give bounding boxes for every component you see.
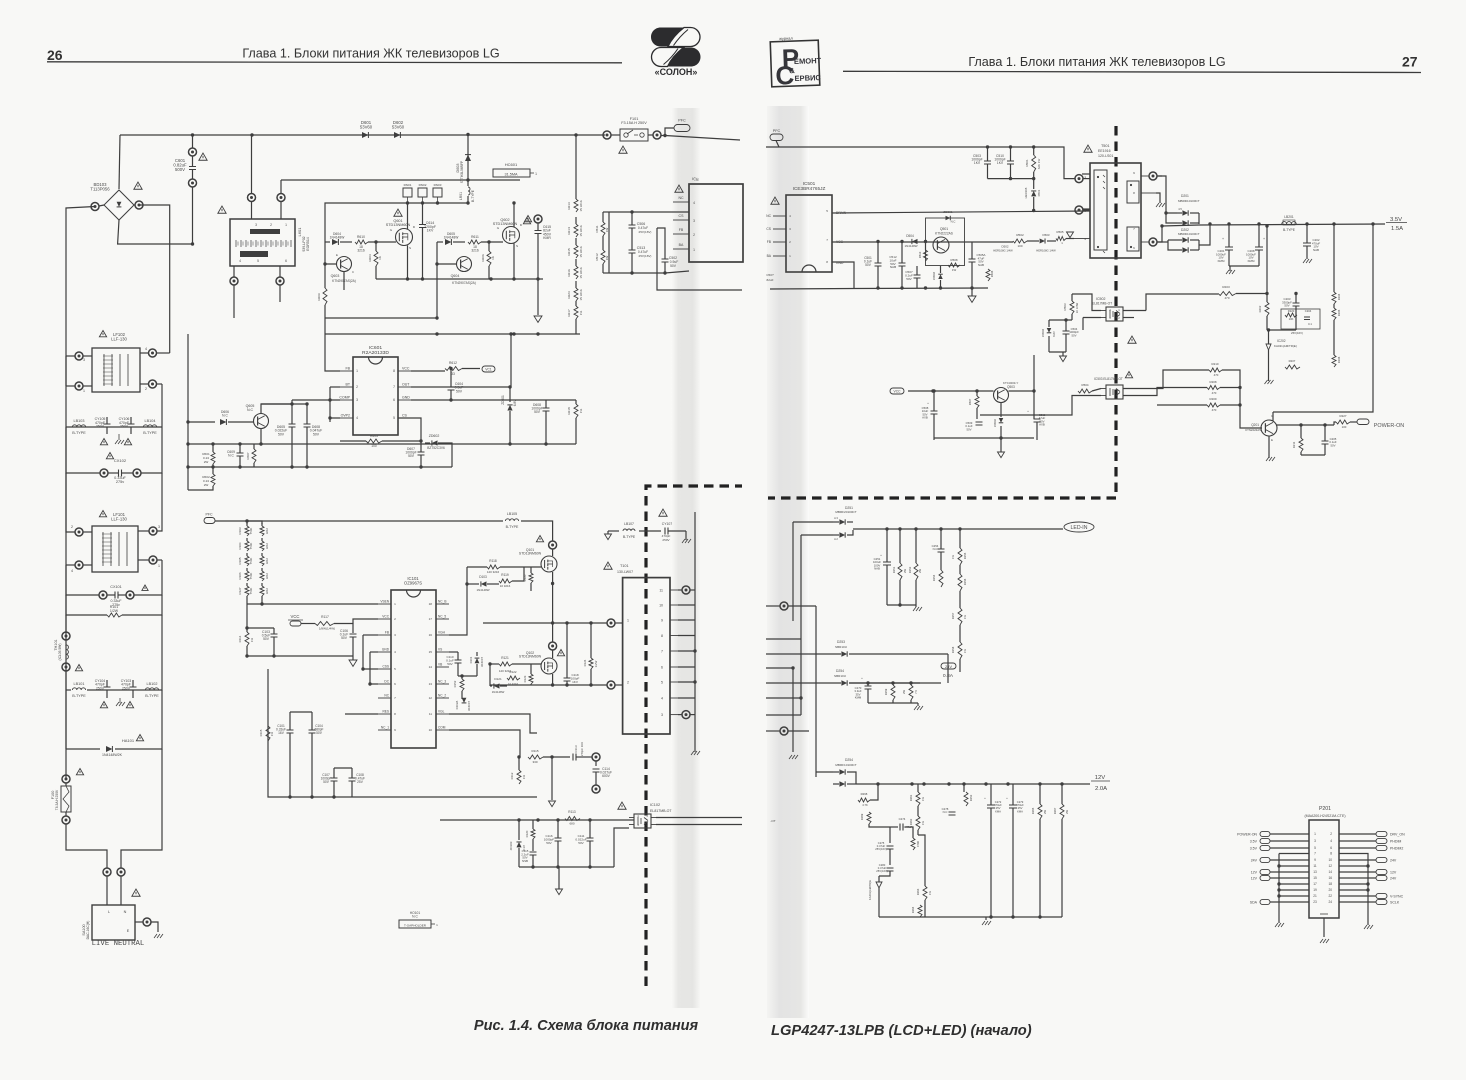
capacitor C101 [287, 730, 294, 733]
svg-text:ZD503: ZD503 [932, 271, 936, 280]
svg-text:470: 470 [1212, 408, 1217, 412]
resistor R227 [1336, 420, 1350, 424]
inductor L201 [1282, 222, 1296, 224]
svg-text:50V: 50V [865, 263, 872, 267]
warning triangle Q602 [524, 216, 531, 222]
node enclosure [288, 795, 291, 798]
capacitor C108 [349, 778, 356, 781]
resistor R508 [948, 263, 960, 267]
IC101 pin 4 GND [378, 651, 391, 653]
svg-text:3.5V: 3.5V [1390, 217, 1402, 223]
svg-text:R251: R251 [892, 566, 896, 573]
publisher logo Remont&Service [770, 35, 823, 91]
wire 24v bus [947, 654, 949, 683]
svg-text:R115: R115 [259, 729, 263, 736]
resistor R262 [916, 816, 920, 830]
resistor R120b [531, 829, 535, 839]
svg-text:AXB: AXB [922, 416, 928, 420]
terminal C113 [592, 753, 600, 761]
resistor R121 [499, 662, 512, 666]
capacitor C509 [976, 422, 983, 425]
IC601 pin 7 OUT [398, 386, 411, 388]
diode ZD502 [999, 418, 1004, 423]
node hb low b [565, 683, 568, 686]
capacitor C606 [304, 424, 311, 427]
resistor R123 [529, 674, 533, 684]
diode D603 [467, 135, 469, 180]
svg-text:EL817MB-OT: EL817MB-OT [1092, 302, 1112, 306]
wire opto502 in2 [1083, 317, 1101, 319]
wire D202 in [1157, 226, 1162, 242]
wire top rail to divider [574, 133, 577, 136]
capacitor CX102 [100, 469, 108, 477]
terminal LF102 p3 [75, 352, 83, 360]
svg-text:N.C: N.C [412, 915, 418, 919]
terminal LF101 p4 [75, 561, 83, 569]
svg-text:R252: R252 [969, 794, 973, 801]
svg-text:3: 3 [356, 398, 358, 402]
resistor R105 [245, 556, 249, 566]
capacitor C111 [587, 838, 594, 841]
svg-text:STD13NM60N: STD13NM60N [519, 552, 542, 556]
svg-text:D504: D504 [906, 234, 914, 238]
svg-text:8: 8 [394, 712, 396, 716]
node RN bus d [466, 201, 469, 204]
resistor R210 [1209, 368, 1222, 372]
svg-text:4: 4 [71, 569, 73, 573]
capacitor C203 [1293, 303, 1300, 306]
node 35 d [1332, 222, 1335, 225]
warning triangle opto [618, 802, 626, 809]
svg-text:R501: R501 [1025, 159, 1029, 167]
mosfet Q602 [503, 227, 520, 244]
svg-text:R124: R124 [583, 659, 587, 666]
wire divider column [575, 135, 577, 192]
svg-text:+: + [1222, 237, 1224, 241]
ground triangle R505 [1067, 232, 1074, 238]
svg-text:R611: R611 [471, 235, 479, 239]
svg-text:NC: NC [678, 196, 684, 200]
op-amp IC6xx cut (page edge) [689, 184, 743, 262]
svg-text:MBRF20100CT: MBRF20100CT [835, 510, 856, 514]
svg-text:R609: R609 [317, 293, 321, 301]
svg-text:7: 7 [661, 650, 663, 654]
transistor Q603 [337, 257, 352, 272]
svg-text:LIVE NEUTRAL: LIVE NEUTRAL [92, 940, 145, 948]
resistor R507b [975, 396, 979, 408]
svg-text:Q503: Q503 [1007, 385, 1015, 389]
svg-text:IC202: IC202 [1277, 339, 1286, 343]
svg-text:1KV: 1KV [997, 161, 1004, 165]
svg-text:120-LS01: 120-LS01 [1098, 154, 1113, 158]
node RN bus a [406, 201, 409, 204]
svg-text:CX101: CX101 [110, 585, 122, 589]
P201 right pin DRV_ON [1376, 831, 1387, 836]
svg-text:50V: 50V [534, 410, 541, 414]
capacitor CY107 [665, 528, 668, 535]
svg-text:8: 8 [393, 369, 395, 373]
wire D202 out join [1199, 224, 1210, 245]
svg-text:Q501: Q501 [940, 227, 948, 231]
warning triangle near bridge [134, 182, 142, 189]
svg-text:R252: R252 [908, 566, 912, 573]
svg-text:IC502: IC502 [1096, 297, 1105, 301]
terminal LF101 p1 [149, 556, 157, 564]
wire r208 out2 [1220, 387, 1240, 389]
wire c251 gnd [887, 604, 916, 606]
warning triangle L601 [218, 206, 226, 213]
node 12v [947, 782, 950, 785]
wire q201 emitter [1268, 436, 1270, 455]
svg-text:B-TYPE: B-TYPE [471, 189, 475, 202]
resistor R105 pair [260, 556, 264, 566]
svg-text:KMR: KMR [543, 236, 551, 240]
svg-text:NAB: NAB [1313, 248, 1319, 252]
wire drain rail [832, 211, 1090, 213]
svg-text:D503: D503 [1042, 233, 1049, 237]
svg-text:2: 2 [356, 385, 358, 389]
hall sensor HC601 [493, 169, 530, 177]
resistor R116 [528, 755, 543, 759]
svg-text:R227: R227 [1339, 414, 1346, 418]
svg-text:VCC: VCC [402, 367, 410, 371]
svg-text:C113: C113 [574, 745, 578, 752]
wire gnd drop ic501 [832, 262, 854, 288]
capacitor C205 [1322, 441, 1329, 444]
terminal LF102 p2 [149, 380, 157, 388]
svg-text:2.0A: 2.0A [1095, 786, 1107, 792]
wire OUT net [411, 334, 511, 387]
svg-text:R268: R268 [861, 792, 868, 796]
wire c113 gnd drop [551, 757, 553, 800]
capacitor C504 [1063, 331, 1070, 334]
ground triangle C615 [534, 316, 542, 322]
diode D121 [494, 683, 500, 688]
svg-text:VCC: VCC [894, 390, 902, 394]
diode D102A [462, 698, 467, 703]
node rt rail b [1009, 145, 1012, 148]
ground triangle C106 [349, 660, 357, 666]
svg-text:R105: R105 [238, 557, 242, 564]
svg-text:SBR10U: SBR10U [834, 674, 846, 678]
svg-text:50V: 50V [578, 841, 584, 845]
wire COM net [449, 730, 520, 757]
svg-text:EE1916: EE1916 [1098, 149, 1111, 153]
svg-text:31.5MA: 31.5MA [505, 173, 518, 177]
svg-text:1%: 1% [579, 311, 583, 316]
wire IC601 BT net [330, 386, 340, 388]
wire Q101 source [552, 572, 554, 623]
svg-text:100: 100 [1342, 425, 1347, 429]
svg-text:50V: 50V [670, 264, 677, 268]
svg-text:B-TYPE: B-TYPE [143, 431, 157, 435]
IC101 pin 15 VS [436, 651, 449, 653]
IC101 pin 16 VGH [436, 634, 449, 636]
svg-text:LB107: LB107 [624, 522, 634, 526]
svg-text:3: 3 [255, 223, 257, 227]
svg-text:9: 9 [394, 728, 396, 732]
capacitor C506 [629, 225, 636, 228]
svg-text:250V: 250V [96, 686, 105, 690]
capacitor C280 [887, 868, 894, 871]
wire r204 col [1333, 224, 1335, 292]
svg-text:2: 2 [693, 233, 695, 237]
svg-text:4: 4 [1330, 839, 1332, 843]
connector SA100 [92, 905, 135, 940]
node rail1 a [406, 277, 409, 280]
resistor R119 [499, 579, 512, 583]
svg-text:53V60: 53V60 [392, 124, 405, 129]
P201 left bus tap [1279, 883, 1309, 885]
wire r261 r262 [917, 784, 919, 792]
svg-text:1W: 1W [605, 228, 609, 233]
svg-text:(MAA200-H24S21M-CTE): (MAA200-H24S21M-CTE) [1304, 814, 1345, 818]
svg-text:KMM: KMM [1248, 259, 1255, 263]
svg-text:RN02: RN02 [419, 183, 427, 187]
resistor R263 [923, 886, 927, 900]
node bottom rail 467 b [305, 465, 308, 468]
resistor R205 [1332, 308, 1336, 320]
svg-text:20: 20 [1328, 888, 1332, 892]
svg-text:N.C: N.C [933, 547, 938, 551]
diode ZD503 [938, 274, 943, 279]
svg-text:4: 4 [693, 201, 695, 205]
wire Q604 emitter [436, 264, 438, 318]
capacitor C118 [564, 678, 571, 681]
wire T101 right bus [694, 512, 696, 747]
wire led rail [853, 528, 1063, 530]
resistor R605 [366, 439, 382, 443]
svg-text:500V: 500V [175, 167, 185, 172]
svg-text:50V: 50V [1071, 333, 1076, 337]
svg-text:D254: D254 [845, 758, 853, 762]
svg-text:NC_3: NC_3 [438, 680, 446, 684]
wire zd504 gnd [1049, 351, 1066, 353]
optocoupler IC502 [1106, 307, 1123, 321]
svg-text:P201: P201 [1319, 806, 1331, 812]
svg-text:VGH: VGH [438, 631, 446, 635]
resistor R104 pair [260, 541, 264, 551]
ground earth 24v [914, 706, 923, 710]
resistor R264 [918, 905, 922, 917]
svg-text:R113: R113 [568, 810, 576, 814]
svg-text:DRAIN: DRAIN [836, 211, 847, 215]
svg-text:LB104: LB104 [145, 419, 156, 423]
svg-text:STD13NM60N: STD13NM60N [519, 655, 542, 659]
diode D501 [1031, 191, 1036, 196]
node junction bottom loop [191, 242, 194, 245]
resistor R503 [1070, 301, 1074, 314]
wire stack pair top [247, 521, 262, 524]
svg-text:21: 21 [1313, 894, 1317, 898]
svg-text:R511: R511 [595, 225, 599, 232]
svg-text:VSEN: VSEN [380, 600, 389, 604]
capacitor C615 [534, 215, 542, 223]
wire r26 col3 [918, 835, 925, 880]
diode D202 [1182, 237, 1188, 242]
wire vcc rail [832, 241, 1013, 243]
svg-text:1%: 1% [921, 820, 925, 825]
node mid rail a [186, 442, 189, 445]
P201 gnd right [1364, 925, 1373, 929]
IC601 pin 8 VCC [398, 370, 411, 372]
diode D602 [394, 132, 400, 138]
svg-text:1N4148W: 1N4148W [444, 236, 460, 240]
wire 12v fb col [889, 834, 891, 843]
svg-text:1: 1 [535, 172, 537, 176]
terminal T101 p11 [678, 589, 682, 591]
IC101 pin 2 VCC [378, 618, 391, 620]
resistor R255 [958, 548, 962, 565]
box R220 C204 [1281, 309, 1320, 329]
svg-text:250V: 250V [120, 425, 129, 429]
capacitor C604 [448, 387, 455, 390]
wire 24v gnd rail [868, 702, 918, 704]
svg-text:50V: 50V [1284, 304, 1289, 308]
capacitor C508 [931, 411, 938, 414]
svg-text:25V(16V): 25V(16V) [876, 869, 888, 873]
svg-text:D101: D101 [469, 656, 473, 663]
capacitor C503 [984, 161, 991, 164]
svg-text:3216: 3216 [265, 572, 269, 579]
svg-text:+: + [1006, 796, 1008, 800]
svg-text:BZT52C3V6: BZT52C3V6 [427, 446, 445, 450]
resistor R259 [891, 685, 895, 700]
svg-text:RES: RES [382, 710, 389, 714]
svg-text:C204: C204 [1305, 309, 1312, 313]
node rt rail c [1032, 145, 1035, 148]
svg-text:1KV: 1KV [572, 680, 579, 684]
svg-text:4.5: 4.5 [1178, 207, 1182, 211]
svg-text:14: 14 [429, 665, 433, 669]
wire bridge top drop [119, 135, 120, 189]
capacitor C608 [543, 408, 550, 411]
svg-text:LGP4247-13LPB (LCD+LED) (начал: LGP4247-13LPB (LCD+LED) (начало) [771, 1023, 1032, 1039]
svg-text:7: 7 [394, 696, 396, 700]
svg-text:A 2: A 2 [834, 537, 838, 541]
resistor R511 [601, 222, 605, 236]
diode D103b [481, 581, 487, 586]
svg-text:1.5A: 1.5A [1391, 226, 1403, 232]
svg-text:6: 6 [1330, 846, 1332, 850]
P201 bottom pin [1323, 918, 1325, 937]
wire opto out [656, 817, 742, 819]
wire Q605 collector [261, 400, 292, 414]
wire Q601 source [407, 246, 409, 280]
svg-text:270pF 1KV: 270pF 1KV [580, 742, 584, 756]
terminal T501 out6 [1149, 238, 1157, 246]
svg-text:VC1: VC1 [485, 368, 492, 372]
wire vcc503 [908, 390, 994, 392]
svg-text:POWER-ON: POWER-ON [1237, 832, 1257, 836]
left header rule [47, 62, 622, 63]
resistor R268 [858, 798, 870, 802]
wire stub 715 [766, 714, 801, 716]
mosfet Q101 [541, 556, 557, 572]
svg-text:6: 6 [1133, 246, 1135, 250]
wire PFC gate bus top [325, 203, 335, 242]
node bottom rail b [512, 332, 515, 335]
capacitor C254 [938, 549, 945, 552]
terminal T101 p1 [607, 619, 615, 627]
resistor R5q [924, 250, 928, 261]
svg-text:16: 16 [1328, 876, 1332, 880]
svg-text:0.1: 0.1 [1308, 322, 1312, 326]
diode ZD601 [509, 391, 511, 402]
resistor R618 [574, 404, 578, 418]
svg-text:330: 330 [532, 760, 537, 764]
svg-text:1%: 1% [921, 796, 925, 801]
svg-text:RN03: RN03 [434, 183, 442, 187]
svg-text:R617: R617 [567, 309, 571, 317]
warning triangle Q101 [536, 536, 543, 542]
capacitor C107 [331, 778, 338, 781]
wire r26 col2 [917, 830, 919, 835]
svg-text:HER108G 1/4W: HER108G 1/4W [993, 249, 1013, 253]
P201 left pin 3.5V [1260, 838, 1270, 843]
svg-text:22: 22 [1328, 894, 1332, 898]
capacitor C208 [1255, 247, 1263, 250]
svg-text:HER108: HER108 [1024, 187, 1028, 198]
svg-text:5: 5 [826, 209, 828, 213]
wire stack links [246, 596, 248, 628]
wire ic503 out2 [1123, 395, 1150, 397]
svg-text:R211: R211 [1292, 441, 1296, 448]
svg-text:FB: FB [385, 631, 389, 635]
terminal mains L [103, 868, 111, 876]
resistor R113 [565, 817, 580, 821]
svg-text:3216: 3216 [471, 249, 479, 253]
svg-text:LB101: LB101 [74, 682, 85, 686]
ground CY row [115, 440, 124, 444]
terminal L601 top1 [251, 135, 253, 194]
wire c106 gnd rail [247, 655, 353, 657]
svg-text:+: + [927, 401, 929, 405]
svg-text:24V: 24V [945, 664, 952, 669]
resistor R2xx [909, 685, 913, 700]
wire d251 feed [793, 521, 833, 523]
resistor R204 [1332, 292, 1336, 304]
capacitor C104 [309, 730, 316, 733]
fuse holder HO101 [399, 920, 431, 928]
svg-text:FB: FB [679, 228, 684, 232]
svg-text:R613: R613 [567, 202, 571, 210]
svg-text:6: 6 [394, 682, 396, 686]
svg-text:T-GAPHOLDER: T-GAPHOLDER [404, 923, 427, 927]
right header rule [843, 71, 1421, 72]
svg-text:R614: R614 [567, 227, 571, 235]
svg-text:1/2W: 1/2W [110, 609, 119, 613]
diode D606 [188, 421, 215, 423]
node 12v [922, 782, 925, 785]
wire R511 tie [603, 211, 609, 213]
svg-text:18: 18 [429, 602, 433, 606]
wire opto502 in [1072, 294, 1101, 311]
wire filter left segment [65, 356, 67, 386]
terminal T501 out9 [1149, 172, 1157, 180]
svg-text:IC102: IC102 [650, 803, 660, 807]
capacitor C513 [629, 250, 636, 253]
warning triangle IC502 [1128, 336, 1136, 343]
wire CX101 row [66, 565, 99, 595]
svg-text:NC_B: NC_B [438, 600, 447, 604]
svg-text:T101: T101 [620, 564, 629, 568]
svg-text:LLF-130: LLF-130 [111, 516, 127, 521]
wire D201 in [1157, 176, 1177, 213]
node hb mid b [565, 621, 568, 624]
wire r211 gnd [1300, 452, 1302, 455]
svg-text:NC: NC [766, 214, 771, 218]
